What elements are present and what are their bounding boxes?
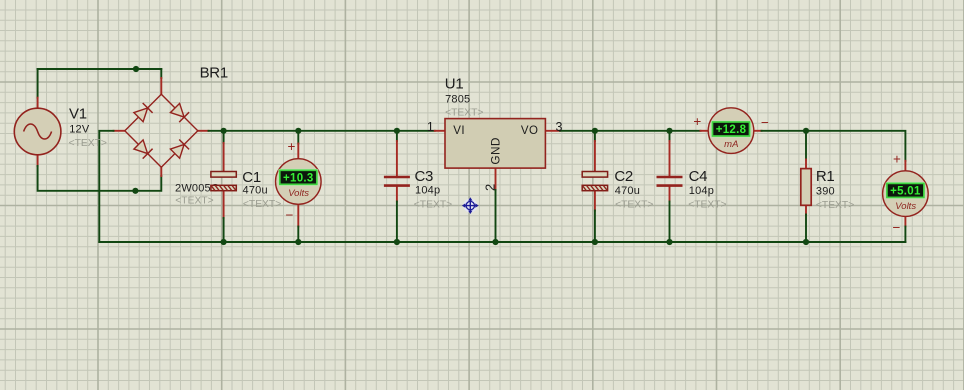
wire +5V bus to ammeter — [560, 130, 701, 132]
pin stub AM1 + — [701, 130, 709, 132]
svg-text:Volts: Volts — [288, 188, 309, 199]
svg-text:VI: VI — [453, 125, 465, 137]
pin stub U1 pin2 — [495, 168, 497, 190]
wire C3 bottom — [396, 202, 398, 243]
wire C1 bottom — [223, 218, 225, 242]
svg-text:+10.3: +10.3 — [283, 172, 314, 184]
wire +12V bus — [209, 130, 435, 132]
wire C4 top — [669, 131, 671, 141]
svg-text:<TEXT>: <TEXT> — [175, 196, 213, 207]
pin stub U1 pin1 — [435, 130, 445, 132]
svg-text:−: − — [893, 220, 901, 235]
junction bottom loop — [132, 188, 138, 194]
pin stub C2 - — [594, 191, 596, 211]
svg-text:<TEXT>: <TEXT> — [243, 199, 281, 210]
meter VM1 voltmeter +10.3 — [276, 159, 322, 205]
svg-text:1: 1 — [427, 120, 434, 134]
svg-text:<TEXT>: <TEXT> — [688, 200, 726, 211]
wire BR1 top — [160, 69, 162, 78]
capacitor C2 (electrolytic) — [582, 172, 607, 191]
wire R1 bottom — [805, 215, 807, 243]
svg-text:<TEXT>: <TEXT> — [445, 108, 483, 119]
wire U1 gnd — [495, 190, 497, 242]
svg-text:C4: C4 — [689, 168, 708, 185]
svg-text:C2: C2 — [614, 168, 633, 185]
pin stub BR1 - — [114, 130, 125, 132]
junction gnd/VM1 — [295, 239, 301, 245]
svg-text:390: 390 — [816, 186, 835, 198]
junction +bus/R1 — [803, 128, 809, 134]
junction +bus/VM1 — [295, 128, 301, 134]
svg-text:VO: VO — [521, 125, 539, 137]
junction +bus/C2 — [592, 128, 598, 134]
capacitor C1 (electrolytic) — [211, 172, 236, 191]
svg-text:<TEXT>: <TEXT> — [414, 200, 452, 211]
svg-text:−: − — [761, 115, 769, 130]
pin stub C1 + — [223, 143, 225, 171]
svg-text:+: + — [288, 139, 296, 154]
pin stub R1 top — [805, 160, 807, 169]
svg-text:<TEXT>: <TEXT> — [69, 138, 107, 149]
svg-text:C3: C3 — [415, 168, 434, 185]
svg-text:BR1: BR1 — [200, 65, 228, 82]
pin stub V1 + — [37, 98, 39, 109]
pin stub C1 - — [223, 191, 225, 218]
pin stub VM1 - — [297, 204, 299, 227]
svg-text:Volts: Volts — [895, 201, 916, 212]
origin marker — [462, 197, 479, 214]
wire C3 top — [396, 131, 398, 141]
pin stub R1 bottom — [805, 205, 807, 214]
junction gnd/U1 gnd — [492, 239, 498, 245]
pin stub VM2 - — [904, 216, 906, 226]
wire C1 top — [223, 131, 225, 143]
pin stub VM2 + — [904, 161, 906, 171]
wire BR1- down — [99, 131, 113, 242]
wire VM1 top — [297, 131, 299, 144]
svg-text:GND: GND — [488, 137, 502, 164]
svg-text:+5.01: +5.01 — [890, 185, 921, 197]
svg-text:<TEXT>: <TEXT> — [615, 200, 653, 211]
pin stub C4 bottom — [669, 186, 671, 201]
svg-text:7805: 7805 — [445, 94, 470, 106]
pin stub U1 pin3 — [545, 130, 560, 132]
junction gnd/R1 — [803, 239, 809, 245]
svg-text:+12.8: +12.8 — [716, 124, 747, 136]
regulator U1 7805 body — [445, 119, 545, 169]
svg-text:470u: 470u — [615, 185, 640, 197]
resistor R1 — [801, 169, 811, 206]
pin stub BR1 AC1 — [160, 78, 162, 94]
junction +bus/C4 — [666, 128, 672, 134]
svg-text:2: 2 — [483, 184, 498, 191]
meter AM1 ammeter +12.8 — [708, 108, 754, 154]
svg-text:R1: R1 — [816, 168, 835, 185]
capacitor C4 (ceramic) — [657, 177, 683, 186]
junction +bus/C3 — [394, 128, 400, 134]
junction gnd/C4 — [666, 239, 672, 245]
capacitor C3 (ceramic) — [384, 177, 410, 186]
wire ammeter to VM2 — [762, 131, 906, 161]
svg-text:−: − — [286, 207, 294, 222]
wire VM1 bottom — [297, 227, 299, 243]
svg-text:12V: 12V — [69, 124, 90, 136]
svg-text:V1: V1 — [69, 106, 87, 123]
svg-text:104p: 104p — [415, 185, 440, 197]
wire C2 top — [594, 131, 596, 141]
wire V1 top — [37, 69, 39, 98]
pin stub C4 top — [669, 141, 671, 176]
svg-text:3: 3 — [556, 120, 563, 134]
bridge rectifier BR1 — [125, 94, 198, 167]
wire net V1+ to BR1 top — [38, 68, 162, 70]
junction gnd/C3 — [394, 239, 400, 245]
pin stub C3 top — [396, 141, 398, 176]
svg-text:U1: U1 — [445, 76, 464, 93]
pin stub C2 + — [594, 141, 596, 172]
svg-text:104p: 104p — [689, 185, 714, 197]
wire C2 bottom — [594, 211, 596, 243]
wire ground bus — [99, 241, 905, 243]
wire VM2 to ground — [904, 227, 906, 243]
pin stub C3 bottom — [396, 186, 398, 201]
wire R1 top — [805, 131, 807, 160]
pin stub AM1 - — [754, 130, 762, 132]
pin stub VM1 + — [297, 144, 299, 160]
wire C4 bottom — [669, 202, 671, 243]
junction top bus — [133, 66, 139, 72]
svg-text:<TEXT>: <TEXT> — [816, 200, 854, 211]
svg-text:+: + — [893, 151, 901, 166]
svg-text:mA: mA — [724, 139, 738, 150]
svg-text:+: + — [693, 114, 701, 129]
svg-text:470u: 470u — [243, 184, 268, 196]
junction +bus/C1 — [221, 128, 227, 134]
pin stub BR1 + — [198, 130, 209, 132]
junction gnd/C2 — [592, 239, 598, 245]
junction gnd/C1 — [221, 239, 227, 245]
voltage source V1 — [14, 108, 61, 155]
meter VM2 voltmeter +5.01 — [883, 171, 929, 217]
pin stub V1 - — [37, 155, 39, 166]
wire V1- to BR1 bottom — [38, 166, 162, 191]
pin stub BR1 AC2 — [160, 167, 162, 176]
